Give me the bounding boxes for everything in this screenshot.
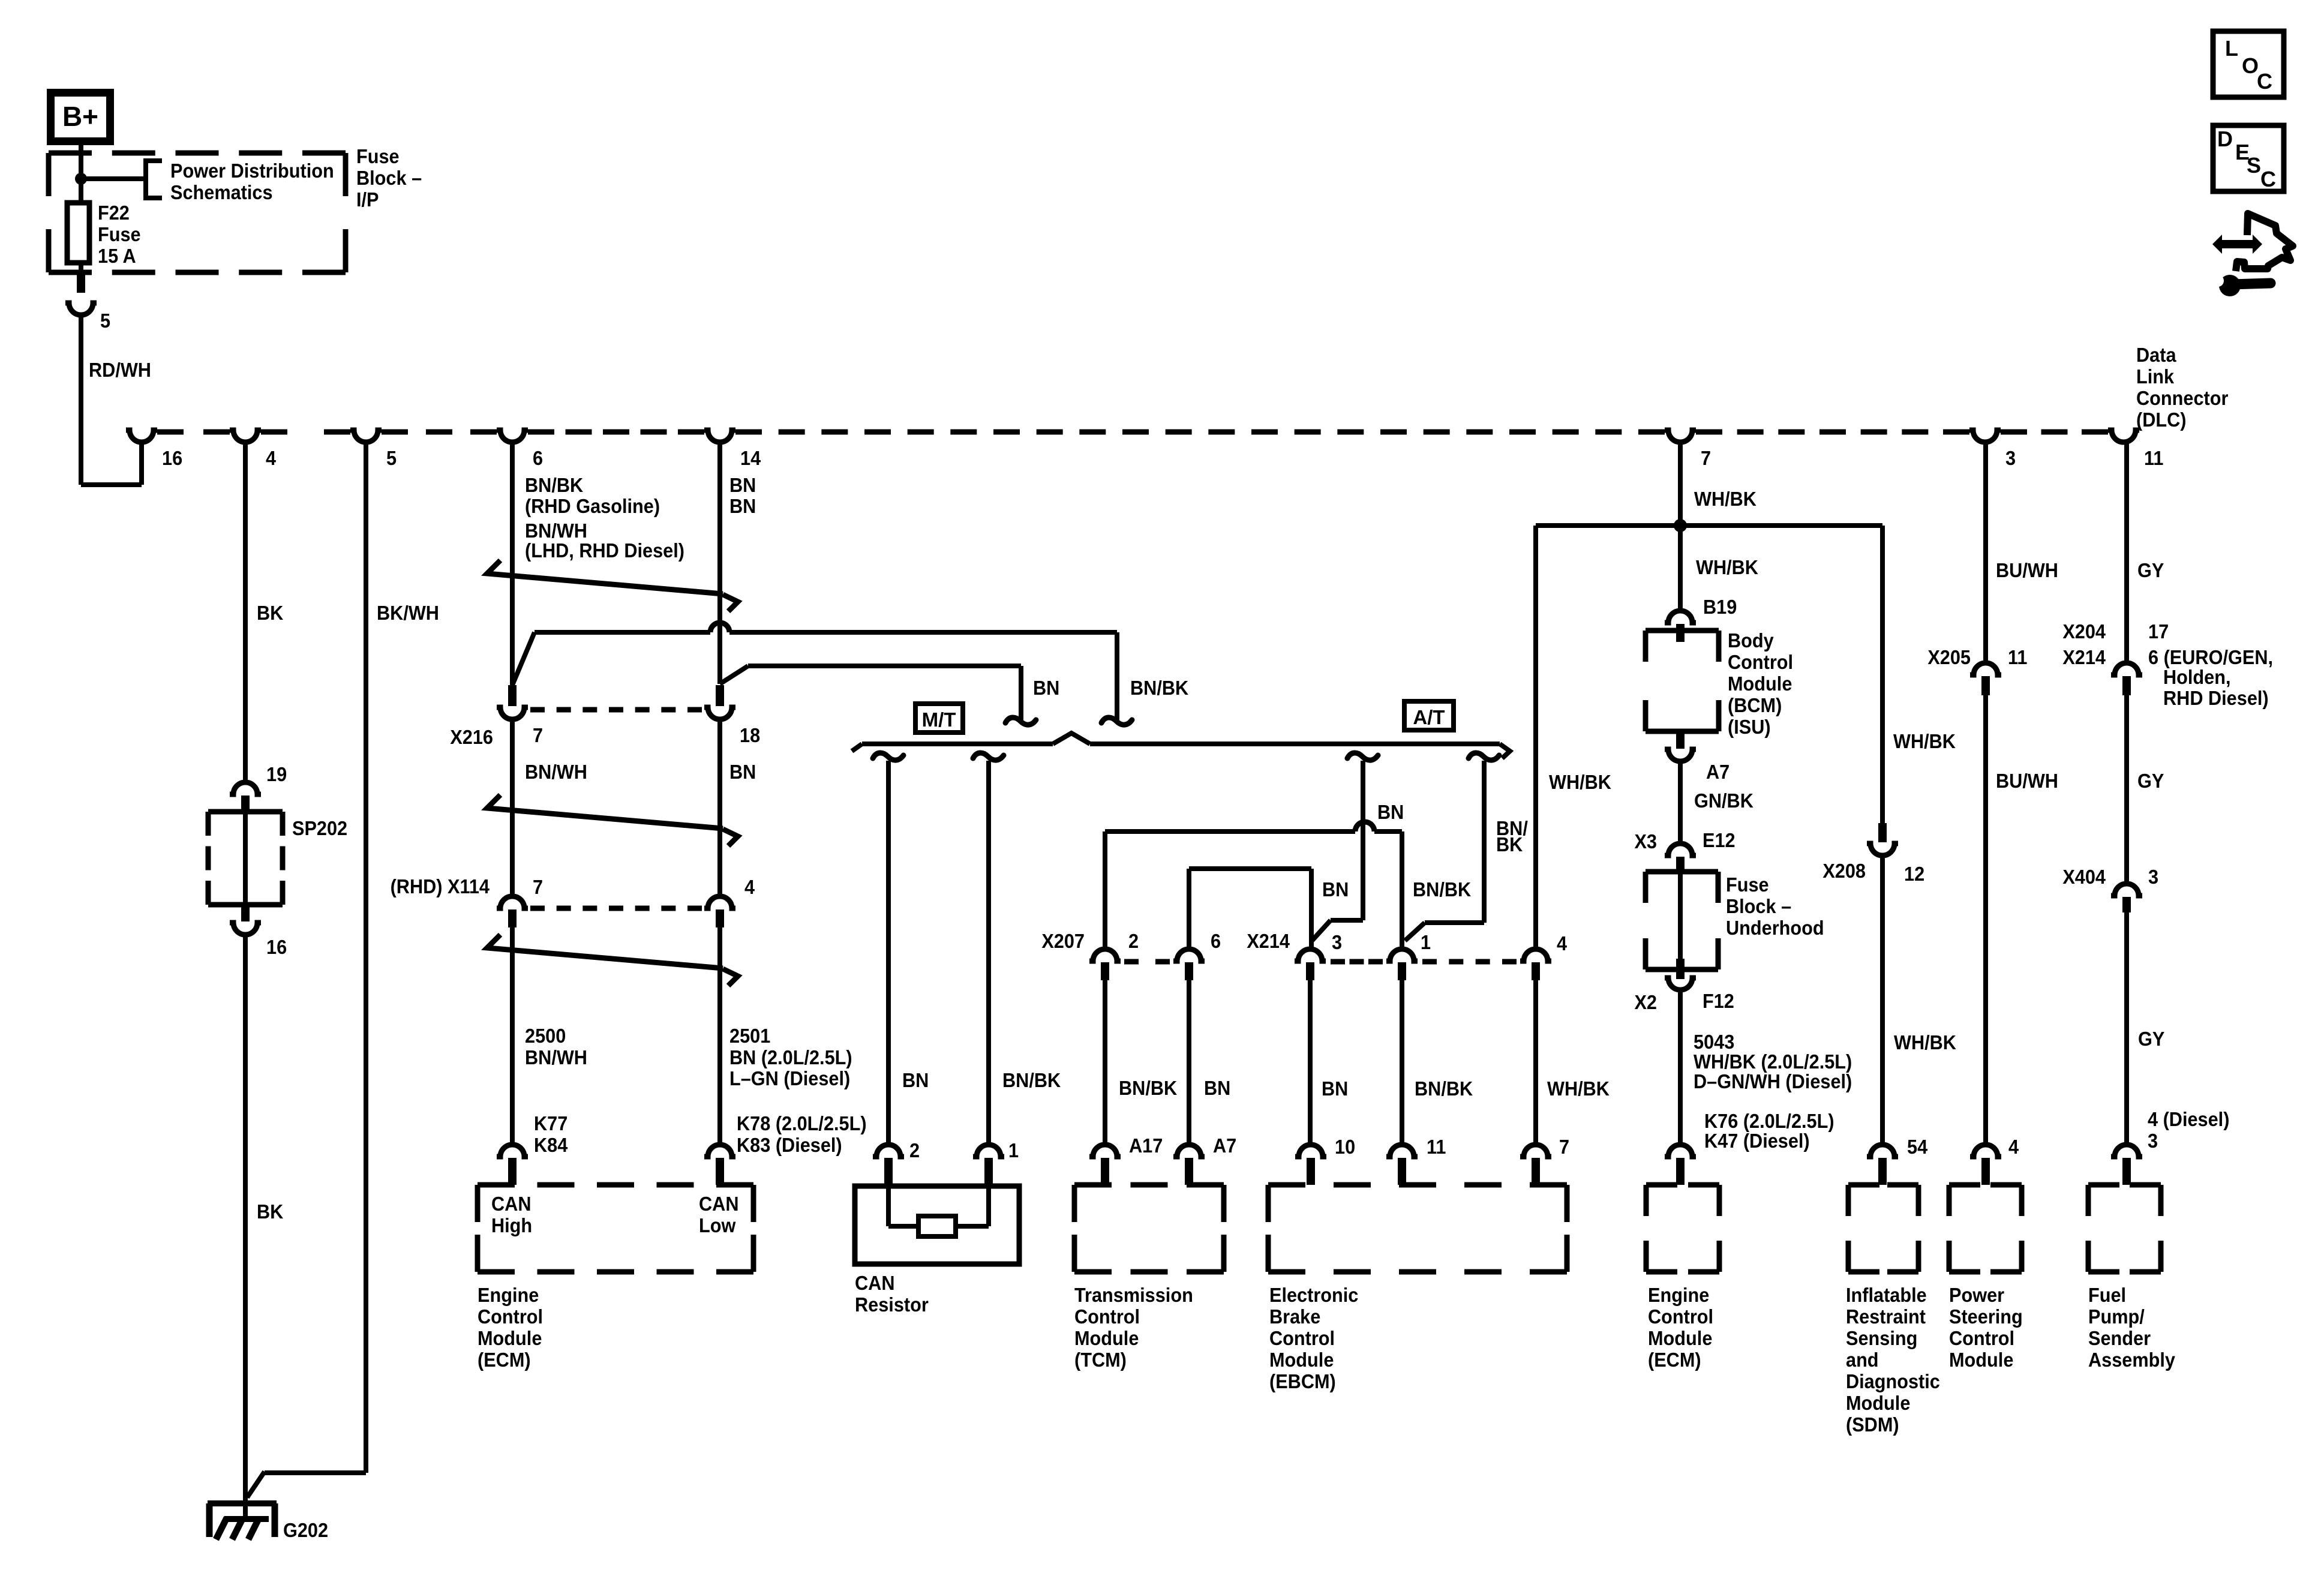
svg-text:6 (EURO/GEN,: 6 (EURO/GEN, — [2148, 646, 2273, 668]
svg-text:Electronic: Electronic — [1269, 1284, 1358, 1306]
svg-text:GN/BK: GN/BK — [1694, 789, 1753, 812]
svg-text:BN/BK: BN/BK — [525, 474, 583, 496]
svg-text:BN: BN — [1204, 1077, 1230, 1099]
svg-text:BN: BN — [729, 474, 756, 496]
svg-text:Power Distribution: Power Distribution — [170, 160, 334, 182]
svg-text:Module: Module — [1846, 1392, 1910, 1414]
svg-text:CAN: CAN — [855, 1272, 894, 1294]
svg-text:F22: F22 — [98, 202, 130, 224]
svg-text:BN/BK: BN/BK — [1119, 1077, 1177, 1099]
svg-text:WH/BK: WH/BK — [1696, 556, 1758, 578]
svg-text:(RHD) X114: (RHD) X114 — [391, 875, 490, 897]
svg-text:F12: F12 — [1703, 990, 1734, 1012]
svg-text:Block –: Block – — [1726, 895, 1791, 917]
svg-text:Sensing: Sensing — [1846, 1327, 1917, 1349]
svg-text:BN/WH: BN/WH — [525, 1046, 587, 1068]
svg-text:1: 1 — [1421, 931, 1431, 953]
svg-text:K78 (2.0L/2.5L): K78 (2.0L/2.5L) — [737, 1112, 867, 1134]
svg-text:1: 1 — [1008, 1139, 1019, 1161]
svg-text:C: C — [2260, 167, 2276, 191]
svg-text:RHD Diesel): RHD Diesel) — [2163, 687, 2269, 709]
svg-text:BN: BN — [729, 761, 756, 783]
svg-text:Module: Module — [1728, 673, 1792, 695]
svg-text:K83 (Diesel): K83 (Diesel) — [737, 1134, 842, 1156]
svg-text:BK: BK — [1496, 833, 1523, 855]
svg-text:18: 18 — [740, 724, 760, 746]
svg-text:Control: Control — [1648, 1305, 1713, 1328]
svg-text:X2: X2 — [1634, 991, 1657, 1013]
svg-text:X214: X214 — [2062, 646, 2106, 668]
svg-text:7: 7 — [1559, 1136, 1569, 1158]
svg-text:3: 3 — [2148, 866, 2158, 888]
svg-text:7: 7 — [1701, 447, 1711, 469]
svg-text:Pump/: Pump/ — [2088, 1305, 2145, 1328]
svg-text:L: L — [2225, 36, 2238, 61]
svg-text:Module: Module — [1074, 1327, 1139, 1349]
svg-text:Control: Control — [478, 1305, 543, 1328]
svg-text:Low: Low — [699, 1214, 736, 1236]
svg-text:Module: Module — [1949, 1349, 2013, 1371]
svg-text:A/T: A/T — [1413, 706, 1445, 728]
svg-text:BN/BK: BN/BK — [1002, 1069, 1061, 1091]
svg-text:WH/BK (2.0L/2.5L): WH/BK (2.0L/2.5L) — [1694, 1050, 1852, 1073]
svg-text:BU/WH: BU/WH — [1996, 770, 2058, 792]
svg-text:BK: BK — [257, 602, 283, 624]
svg-text:GY: GY — [2138, 1028, 2164, 1050]
svg-text:RD/WH: RD/WH — [89, 359, 151, 381]
svg-text:SP202: SP202 — [292, 817, 347, 839]
svg-text:WH/BK: WH/BK — [1694, 488, 1756, 510]
svg-text:and: and — [1846, 1349, 1879, 1371]
svg-text:Control: Control — [1949, 1327, 2014, 1349]
svg-text:BK: BK — [257, 1200, 283, 1223]
svg-text:12: 12 — [1904, 863, 1924, 885]
svg-text:X214: X214 — [1247, 930, 1290, 952]
svg-text:(EBCM): (EBCM) — [1269, 1370, 1336, 1392]
svg-text:Engine: Engine — [478, 1284, 539, 1306]
svg-text:Diagnostic: Diagnostic — [1846, 1370, 1940, 1392]
svg-text:Block –: Block – — [356, 167, 422, 189]
svg-text:BN/BK: BN/BK — [1415, 1077, 1473, 1100]
svg-text:Fuse: Fuse — [1726, 873, 1769, 896]
svg-text:(SDM): (SDM) — [1846, 1413, 1899, 1436]
svg-text:E12: E12 — [1703, 829, 1736, 851]
svg-text:2501: 2501 — [729, 1025, 770, 1047]
svg-text:Resistor: Resistor — [855, 1293, 929, 1316]
svg-text:Power: Power — [1949, 1284, 2004, 1306]
svg-text:K77: K77 — [534, 1112, 568, 1134]
svg-text:(ISU): (ISU) — [1728, 716, 1771, 738]
svg-text:Control: Control — [1269, 1327, 1335, 1349]
svg-text:WH/BK: WH/BK — [1549, 771, 1611, 793]
svg-text:14: 14 — [740, 447, 761, 469]
svg-text:K76 (2.0L/2.5L): K76 (2.0L/2.5L) — [1704, 1110, 1834, 1132]
svg-text:WH/BK: WH/BK — [1894, 1031, 1956, 1053]
svg-text:G202: G202 — [283, 1519, 328, 1541]
svg-text:4 (Diesel): 4 (Diesel) — [2148, 1108, 2229, 1130]
svg-text:BN: BN — [729, 495, 756, 517]
svg-text:WH/BK: WH/BK — [1547, 1077, 1610, 1100]
svg-text:K84: K84 — [534, 1134, 568, 1156]
svg-text:2: 2 — [1128, 930, 1139, 952]
svg-text:4: 4 — [266, 447, 276, 469]
svg-text:Engine: Engine — [1648, 1284, 1709, 1306]
svg-text:X404: X404 — [2062, 866, 2106, 888]
svg-text:BN (2.0L/2.5L): BN (2.0L/2.5L) — [729, 1046, 852, 1068]
svg-text:Assembly: Assembly — [2088, 1349, 2175, 1371]
svg-text:(ECM): (ECM) — [478, 1349, 531, 1371]
svg-text:4: 4 — [2008, 1136, 2019, 1158]
svg-text:5: 5 — [100, 310, 110, 332]
svg-text:X205: X205 — [1927, 646, 1971, 668]
svg-text:54: 54 — [1907, 1136, 1927, 1158]
svg-text:Module: Module — [1648, 1327, 1712, 1349]
svg-text:(DLC): (DLC) — [2136, 409, 2187, 431]
svg-text:Steering: Steering — [1949, 1305, 2023, 1328]
svg-text:C: C — [2257, 69, 2272, 94]
svg-text:2500: 2500 — [525, 1025, 566, 1047]
svg-text:K47 (Diesel): K47 (Diesel) — [1704, 1130, 1810, 1152]
svg-text:3: 3 — [2005, 447, 2016, 469]
svg-text:A17: A17 — [1129, 1134, 1163, 1157]
svg-text:WH/BK: WH/BK — [1893, 730, 1956, 752]
svg-text:BN/WH: BN/WH — [525, 520, 587, 542]
svg-text:A7: A7 — [1706, 761, 1730, 783]
svg-text:CAN: CAN — [699, 1193, 738, 1215]
svg-text:17: 17 — [2148, 620, 2169, 643]
svg-text:BN: BN — [1322, 878, 1349, 900]
svg-text:Brake: Brake — [1269, 1305, 1320, 1328]
svg-text:M/T: M/T — [922, 709, 956, 731]
svg-text:11: 11 — [1427, 1136, 1446, 1158]
svg-text:16: 16 — [162, 447, 182, 469]
svg-text:Holden,: Holden, — [2163, 666, 2231, 688]
svg-text:BN: BN — [902, 1069, 929, 1091]
svg-text:11: 11 — [2144, 447, 2163, 469]
svg-text:6: 6 — [533, 447, 543, 469]
svg-text:BN: BN — [1377, 801, 1404, 823]
svg-text:BN/BK: BN/BK — [1413, 878, 1471, 900]
svg-text:BN/BK: BN/BK — [1130, 677, 1188, 699]
svg-text:Fuel: Fuel — [2088, 1284, 2126, 1306]
svg-text:5: 5 — [386, 447, 397, 469]
svg-text:Module: Module — [478, 1327, 542, 1349]
svg-text:Transmission: Transmission — [1074, 1284, 1193, 1306]
svg-text:15 A: 15 A — [98, 245, 136, 267]
svg-text:BN/WH: BN/WH — [525, 761, 587, 783]
svg-text:BU/WH: BU/WH — [1996, 559, 2058, 581]
svg-text:I/P: I/P — [356, 188, 379, 211]
svg-text:L–GN (Diesel): L–GN (Diesel) — [729, 1067, 850, 1089]
svg-text:5043: 5043 — [1694, 1031, 1734, 1053]
svg-text:CAN: CAN — [491, 1193, 531, 1215]
svg-text:D: D — [2217, 127, 2233, 151]
svg-text:6: 6 — [1211, 930, 1221, 952]
svg-text:D–GN/WH (Diesel): D–GN/WH (Diesel) — [1694, 1070, 1852, 1092]
svg-text:3: 3 — [2148, 1130, 2158, 1152]
svg-text:(BCM): (BCM) — [1728, 694, 1782, 716]
svg-text:3: 3 — [1332, 931, 1342, 953]
svg-text:Connector: Connector — [2136, 387, 2228, 409]
svg-text:BN: BN — [1033, 677, 1059, 699]
svg-text:7: 7 — [533, 876, 543, 898]
svg-text:Fuse: Fuse — [98, 223, 141, 245]
svg-text:(LHD, RHD Diesel): (LHD, RHD Diesel) — [525, 539, 684, 562]
svg-text:Link: Link — [2136, 365, 2174, 388]
svg-text:X3: X3 — [1634, 830, 1657, 852]
svg-text:GY: GY — [2137, 559, 2164, 581]
svg-text:High: High — [491, 1214, 532, 1236]
svg-text:(TCM): (TCM) — [1074, 1349, 1127, 1371]
svg-text:Data: Data — [2136, 344, 2176, 366]
svg-text:16: 16 — [266, 936, 287, 958]
svg-text:S: S — [2247, 153, 2261, 178]
svg-text:(RHD Gasoline): (RHD Gasoline) — [525, 495, 660, 517]
svg-text:Restraint: Restraint — [1846, 1305, 1926, 1328]
svg-text:(ECM): (ECM) — [1648, 1349, 1701, 1371]
svg-text:X216: X216 — [450, 726, 493, 748]
svg-text:Fuse: Fuse — [356, 145, 400, 167]
svg-text:Body: Body — [1728, 629, 1774, 652]
svg-text:BK/WH: BK/WH — [377, 602, 439, 624]
svg-text:10: 10 — [1335, 1136, 1355, 1158]
svg-text:GY: GY — [2137, 770, 2164, 792]
svg-text:A7: A7 — [1213, 1134, 1236, 1157]
svg-text:O: O — [2242, 53, 2259, 78]
svg-text:Module: Module — [1269, 1349, 1334, 1371]
svg-text:Underhood: Underhood — [1726, 917, 1824, 939]
svg-text:B+: B+ — [62, 101, 98, 132]
svg-text:4: 4 — [744, 876, 755, 898]
svg-text:Inflatable: Inflatable — [1846, 1284, 1927, 1306]
svg-text:X207: X207 — [1041, 930, 1085, 952]
svg-text:4: 4 — [1557, 932, 1567, 954]
svg-text:Control: Control — [1074, 1305, 1140, 1328]
svg-text:B19: B19 — [1703, 596, 1737, 618]
svg-text:X208: X208 — [1822, 860, 1866, 882]
svg-text:11: 11 — [2008, 646, 2027, 668]
svg-text:19: 19 — [266, 763, 287, 785]
svg-text:X204: X204 — [2062, 620, 2106, 643]
svg-text:Control: Control — [1728, 651, 1793, 673]
svg-text:Schematics: Schematics — [170, 181, 273, 203]
svg-text:2: 2 — [909, 1139, 920, 1161]
svg-text:Sender: Sender — [2088, 1327, 2151, 1349]
svg-text:7: 7 — [533, 724, 543, 746]
svg-text:BN: BN — [1322, 1077, 1348, 1100]
